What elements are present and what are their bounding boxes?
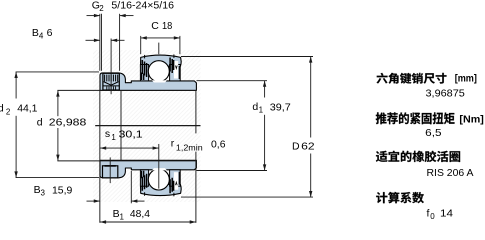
svg-text:D: D bbox=[292, 140, 300, 152]
svg-text:26,988: 26,988 bbox=[49, 117, 87, 129]
seal/race dark details left bbox=[142, 60, 146, 77]
svg-text:B: B bbox=[32, 27, 39, 39]
inner ring shoulders / race columns bbox=[140, 65, 148, 81]
D dimension bbox=[181, 56, 313, 58]
heading H1 CJK bbox=[377, 73, 447, 84]
set screw upper (sectioned) bbox=[103, 73, 119, 90]
seal/race dark details right bbox=[174, 61, 178, 79]
svg-text:RIS 206 A: RIS 206 A bbox=[427, 167, 474, 179]
C dimension bbox=[140, 36, 142, 54]
svg-text:44,1: 44,1 bbox=[17, 102, 37, 114]
bearing vertical axis (lower segment) bbox=[158, 144, 160, 189]
heading H4 CJK bbox=[376, 192, 424, 203]
ball bbox=[148, 169, 169, 190]
svg-text:4: 4 bbox=[39, 32, 44, 41]
svg-text:[Nm]: [Nm] bbox=[459, 113, 483, 125]
svg-text:6,5: 6,5 bbox=[425, 127, 441, 139]
svg-text:1,2min: 1,2min bbox=[176, 144, 203, 153]
B4 dimension bbox=[86, 39, 101, 41]
svg-text:0,6: 0,6 bbox=[211, 138, 226, 150]
inner ring sleeve + eccentric collar body bbox=[100, 160, 196, 178]
outer ring (spherical OD) bbox=[141, 185, 182, 196]
B1 dimension bbox=[100, 221, 196, 223]
set screw lower (outside view) bbox=[103, 166, 118, 178]
s1 dimension bbox=[100, 147, 159, 149]
d1 dimension bbox=[197, 80, 268, 82]
collar right face silhouette bbox=[120, 90, 122, 160]
svg-text:2: 2 bbox=[99, 4, 104, 13]
set screw axis upper bbox=[110, 39, 112, 95]
svg-text:5/16-24×5/16: 5/16-24×5/16 bbox=[111, 0, 174, 12]
svg-text:C: C bbox=[151, 20, 159, 32]
svg-text:2: 2 bbox=[6, 108, 11, 117]
svg-text:3,96875: 3,96875 bbox=[426, 87, 465, 99]
svg-text:d: d bbox=[252, 101, 258, 113]
shaft surface bottom bbox=[57, 160, 196, 162]
B3 dimension bbox=[130, 171, 132, 203]
seal groove ticks on outer ring top bbox=[144, 192, 146, 196]
svg-text:39,7: 39,7 bbox=[270, 101, 291, 113]
G2 dimension bbox=[99, 14, 101, 71]
inner ring race groove notch bbox=[152, 168, 167, 170]
svg-text:s: s bbox=[105, 128, 110, 140]
seal/race dark details right bbox=[174, 172, 178, 190]
svg-text:[mm]: [mm] bbox=[455, 73, 477, 85]
d dimension bbox=[57, 91, 59, 117]
svg-text:f: f bbox=[427, 207, 430, 219]
svg-text:14: 14 bbox=[440, 207, 453, 219]
svg-text:r: r bbox=[171, 138, 175, 150]
svg-text:30,1: 30,1 bbox=[119, 128, 143, 140]
collar left face silhouette + B ext line bbox=[99, 90, 101, 222]
heading H3 CJK bbox=[376, 151, 460, 162]
svg-text:18: 18 bbox=[162, 20, 172, 32]
svg-text:d: d bbox=[0, 102, 4, 114]
seal groove ticks on outer ring top bbox=[144, 55, 146, 59]
seal/race dark details left bbox=[142, 174, 146, 191]
inner ring shoulders / race columns bbox=[140, 170, 148, 186]
svg-text:d: d bbox=[37, 117, 43, 129]
svg-text:15,9: 15,9 bbox=[52, 184, 72, 196]
shaft surface top bbox=[57, 89, 196, 91]
shaft centerline bbox=[95, 125, 200, 127]
svg-text:0: 0 bbox=[430, 212, 435, 221]
bearing section lower half (mirrored) bbox=[100, 160, 196, 196]
svg-text:1: 1 bbox=[259, 106, 264, 115]
outer ring (spherical OD) bbox=[141, 55, 182, 66]
inner ring sleeve + eccentric collar body bbox=[100, 73, 196, 91]
inner ring race groove notch bbox=[152, 80, 167, 82]
svg-text:6: 6 bbox=[47, 27, 53, 39]
set screw axis lower bbox=[109, 157, 111, 183]
svg-text:3: 3 bbox=[41, 189, 46, 198]
d2 dimension bbox=[16, 71, 99, 73]
sleeve right face silhouette + B1 ext bbox=[195, 90, 197, 133]
svg-text:1: 1 bbox=[120, 213, 125, 222]
bearing vertical axis (top segment) bbox=[158, 43, 160, 55]
heading H2 CJK bbox=[376, 112, 455, 124]
svg-text:1: 1 bbox=[111, 133, 116, 142]
svg-text:48,4: 48,4 bbox=[130, 208, 150, 220]
ball bbox=[148, 61, 169, 82]
bearing section upper half bbox=[100, 54, 196, 90]
svg-text:62: 62 bbox=[301, 140, 315, 152]
